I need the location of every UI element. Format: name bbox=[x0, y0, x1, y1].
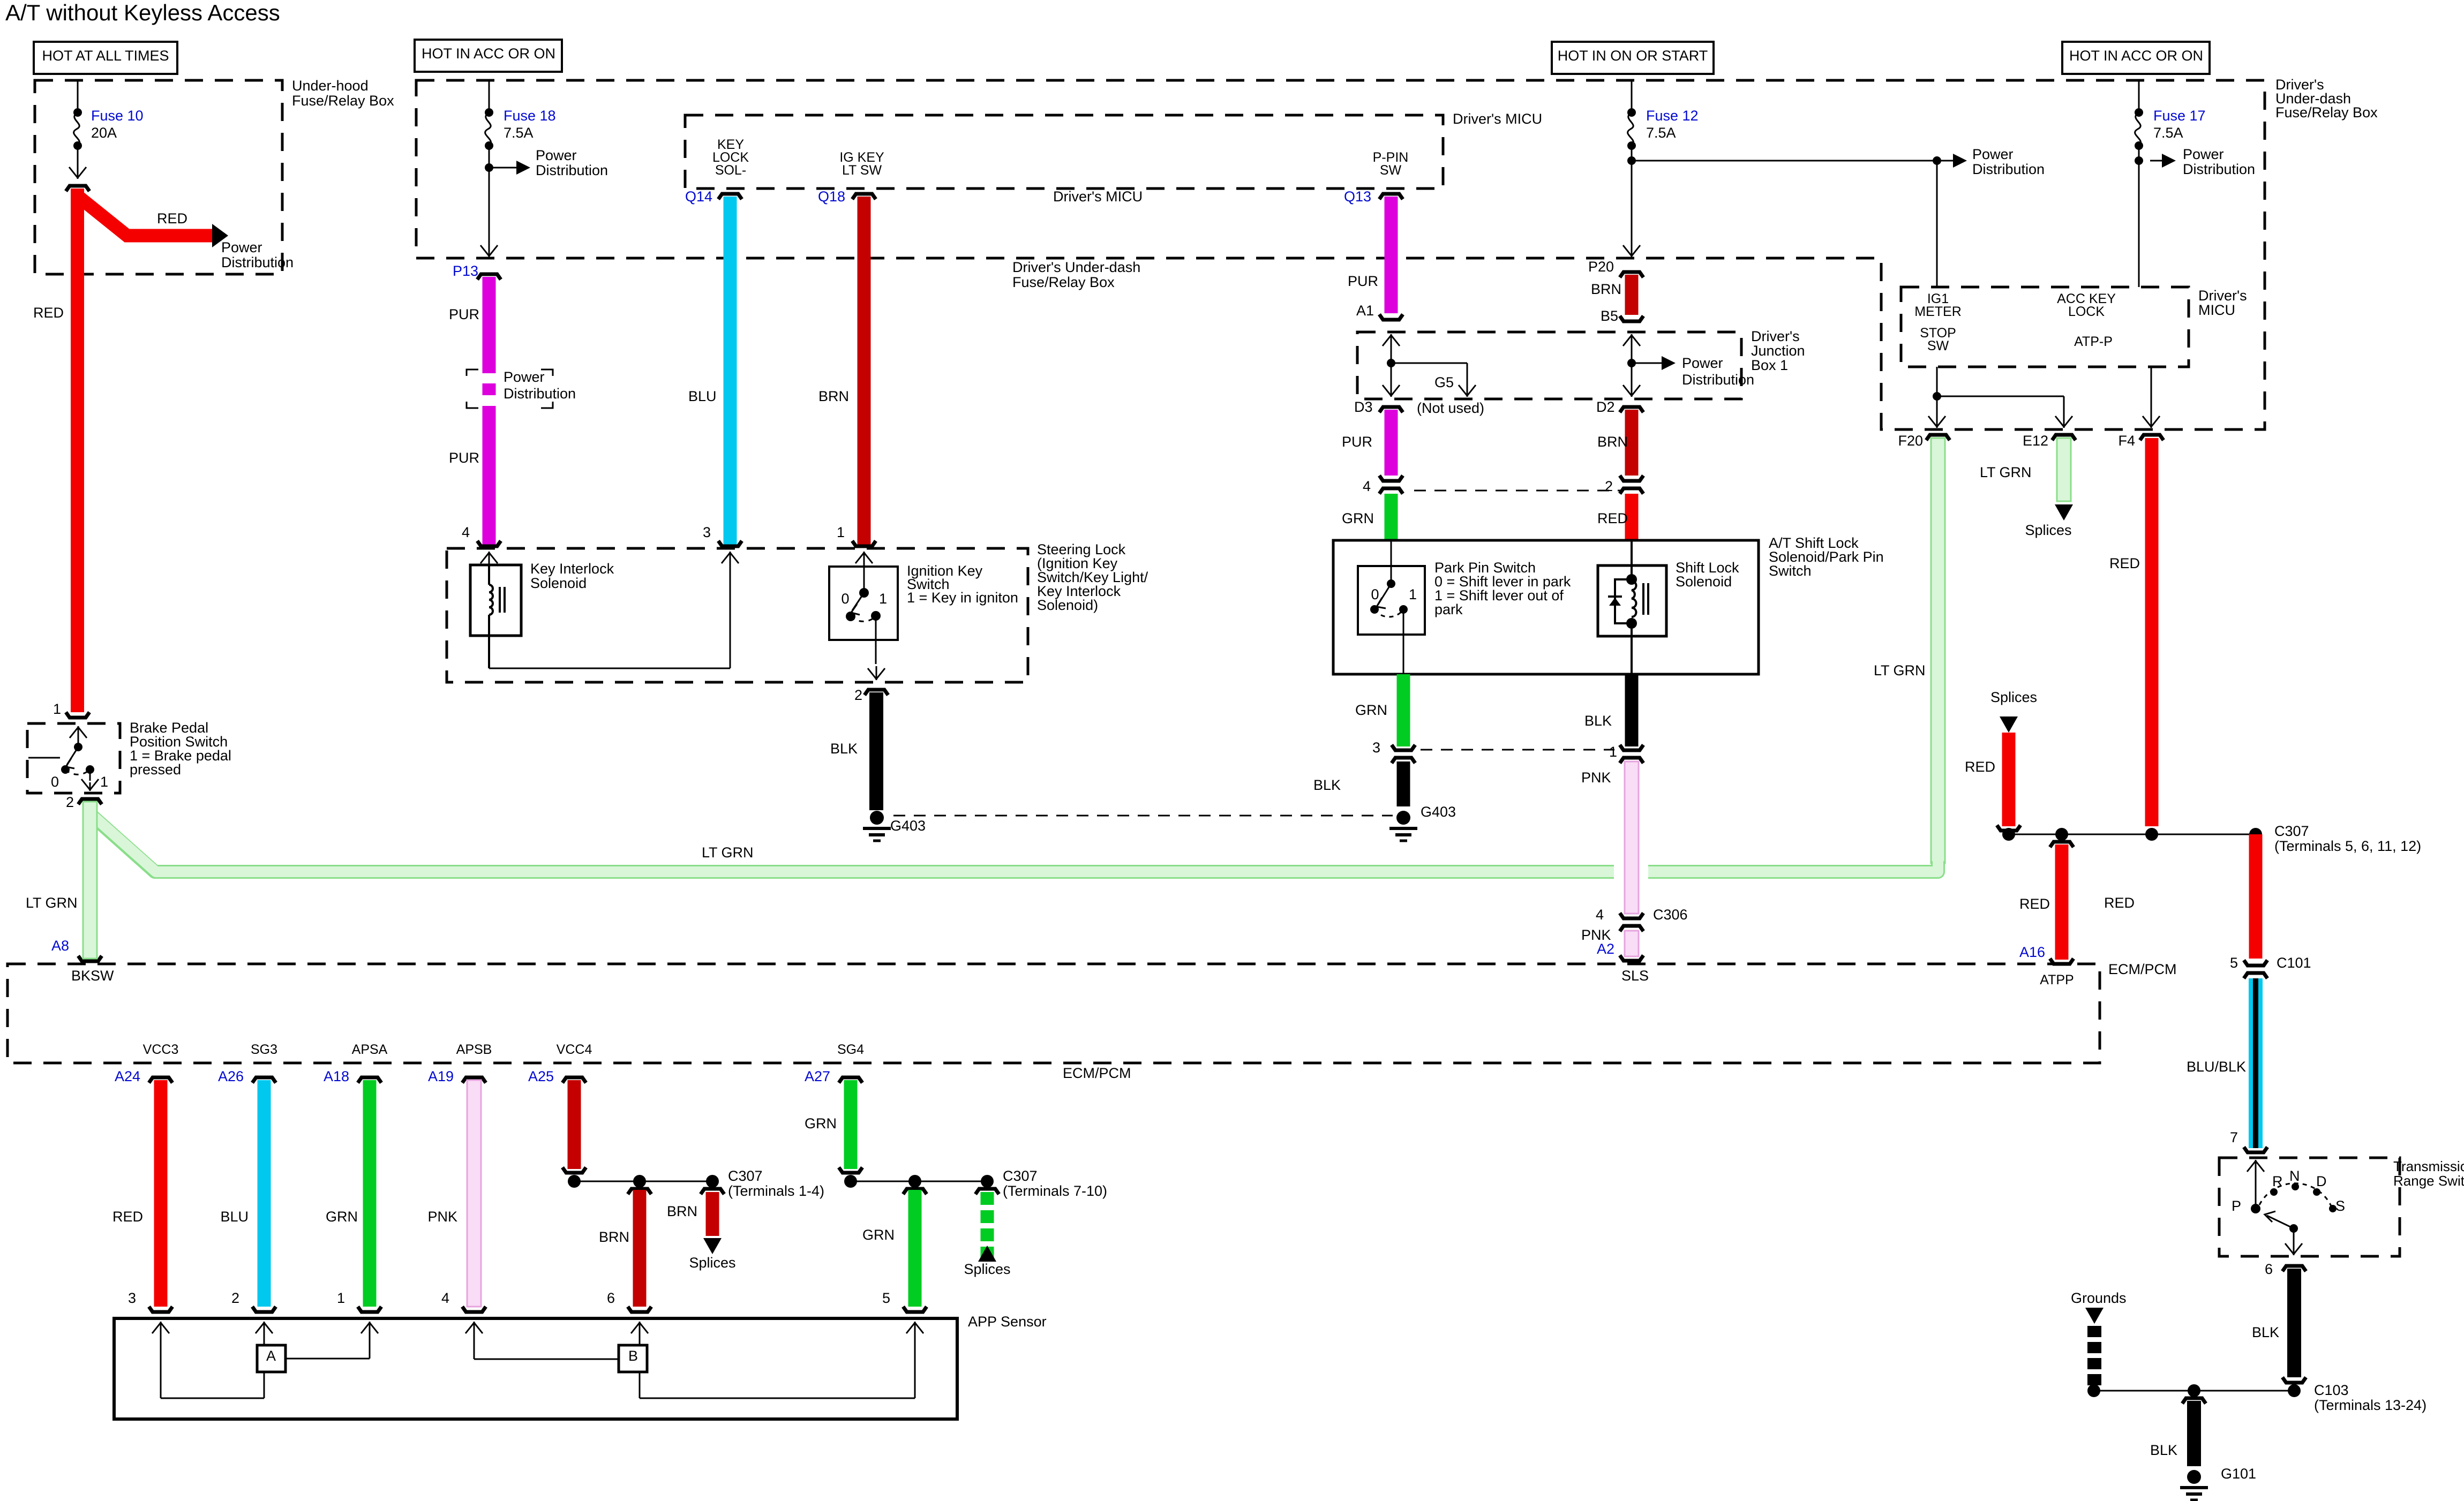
svg-text:6: 6 bbox=[607, 1290, 615, 1306]
svg-text:A1: A1 bbox=[1356, 303, 1374, 319]
svg-text:2: 2 bbox=[231, 1290, 239, 1306]
svg-text:C307: C307 bbox=[728, 1168, 763, 1184]
svg-text:0: 0 bbox=[1371, 586, 1379, 602]
svg-text:F20: F20 bbox=[1898, 433, 1923, 449]
svg-text:4: 4 bbox=[441, 1290, 449, 1306]
svg-text:7.5A: 7.5A bbox=[2153, 125, 2183, 141]
svg-text:A25: A25 bbox=[528, 1068, 554, 1084]
svg-text:Distribution: Distribution bbox=[221, 254, 294, 270]
svg-text:APP Sensor: APP Sensor bbox=[968, 1314, 1047, 1330]
svg-text:Splices: Splices bbox=[2025, 522, 2071, 538]
svg-text:B5: B5 bbox=[1601, 308, 1618, 324]
svg-text:P: P bbox=[2232, 1198, 2241, 1214]
svg-text:BLK: BLK bbox=[1313, 777, 1341, 793]
svg-text:ECM/PCM: ECM/PCM bbox=[2108, 961, 2177, 977]
svg-text:GRN: GRN bbox=[1355, 702, 1387, 718]
svg-text:PUR: PUR bbox=[449, 306, 479, 322]
svg-text:(Terminals 1-4): (Terminals 1-4) bbox=[728, 1183, 824, 1199]
svg-text:Solenoid): Solenoid) bbox=[1037, 597, 1098, 613]
svg-text:ECM/PCM: ECM/PCM bbox=[1063, 1065, 1131, 1081]
svg-text:BLU: BLU bbox=[688, 388, 717, 404]
svg-text:5: 5 bbox=[882, 1290, 890, 1306]
svg-text:G101: G101 bbox=[2221, 1466, 2256, 1482]
svg-text:C307: C307 bbox=[1003, 1168, 1038, 1184]
svg-text:PNK: PNK bbox=[427, 1209, 457, 1225]
svg-text:1: 1 bbox=[837, 524, 845, 540]
svg-text:(Not used): (Not used) bbox=[1417, 400, 1484, 416]
svg-text:Switch: Switch bbox=[1769, 563, 1812, 579]
svg-text:LT SW: LT SW bbox=[842, 163, 882, 178]
svg-text:A: A bbox=[266, 1348, 276, 1364]
svg-text:Q14: Q14 bbox=[685, 188, 712, 205]
svg-text:1: 1 bbox=[879, 591, 887, 607]
svg-text:Distribution: Distribution bbox=[1682, 372, 1754, 388]
svg-text:4: 4 bbox=[462, 524, 470, 540]
svg-text:PUR: PUR bbox=[449, 450, 479, 466]
svg-text:Q13: Q13 bbox=[1344, 188, 1371, 205]
svg-text:A8: A8 bbox=[51, 938, 69, 954]
svg-text:Driver's: Driver's bbox=[1751, 328, 1800, 344]
svg-text:G5: G5 bbox=[1434, 374, 1454, 390]
svg-text:BLK: BLK bbox=[1584, 713, 1612, 729]
svg-text:ATP-P: ATP-P bbox=[2074, 334, 2113, 349]
svg-text:S: S bbox=[2335, 1198, 2345, 1214]
svg-text:A16: A16 bbox=[2019, 944, 2045, 960]
svg-text:C307: C307 bbox=[2274, 823, 2309, 839]
svg-text:Q18: Q18 bbox=[818, 188, 845, 205]
svg-text:park: park bbox=[1434, 601, 1463, 617]
svg-text:SW: SW bbox=[1380, 163, 1402, 178]
svg-text:20A: 20A bbox=[91, 125, 117, 141]
svg-text:LT GRN: LT GRN bbox=[1874, 662, 1926, 678]
svg-text:Transmission: Transmission bbox=[2393, 1158, 2464, 1174]
svg-text:F4: F4 bbox=[2118, 433, 2135, 449]
svg-text:GRN: GRN bbox=[862, 1227, 895, 1243]
svg-text:Range Switch: Range Switch bbox=[2393, 1173, 2464, 1189]
svg-text:A24: A24 bbox=[115, 1068, 140, 1084]
svg-text:SLS: SLS bbox=[1621, 968, 1649, 984]
svg-text:Power: Power bbox=[1972, 146, 2014, 162]
svg-text:BKSW: BKSW bbox=[71, 968, 114, 984]
svg-text:BLU/BLK: BLU/BLK bbox=[2187, 1059, 2246, 1075]
svg-text:Splices: Splices bbox=[1990, 689, 2037, 705]
svg-text:Grounds: Grounds bbox=[2071, 1290, 2127, 1306]
svg-text:1: 1 bbox=[53, 701, 61, 717]
svg-text:7.5A: 7.5A bbox=[504, 125, 534, 141]
svg-text:6: 6 bbox=[2265, 1261, 2273, 1277]
svg-text:N: N bbox=[2289, 1168, 2300, 1184]
svg-text:LOCK: LOCK bbox=[2068, 304, 2105, 319]
svg-text:0: 0 bbox=[51, 774, 59, 790]
svg-text:BRN: BRN bbox=[599, 1229, 629, 1245]
svg-text:SG4: SG4 bbox=[837, 1042, 864, 1057]
svg-text:PUR: PUR bbox=[1342, 434, 1372, 450]
svg-text:Fuse/Relay Box: Fuse/Relay Box bbox=[1012, 274, 1115, 290]
svg-text:PNK: PNK bbox=[1581, 770, 1611, 786]
svg-text:Under-hood: Under-hood bbox=[292, 78, 369, 94]
svg-text:3: 3 bbox=[128, 1290, 136, 1306]
svg-text:2: 2 bbox=[854, 687, 862, 703]
svg-text:BRN: BRN bbox=[1591, 281, 1621, 297]
svg-text:Solenoid: Solenoid bbox=[530, 575, 587, 591]
svg-text:Fuse/Relay Box: Fuse/Relay Box bbox=[292, 93, 394, 109]
svg-text:A18: A18 bbox=[324, 1068, 349, 1084]
svg-text:C306: C306 bbox=[1653, 907, 1688, 923]
svg-text:3: 3 bbox=[703, 524, 711, 540]
svg-text:2: 2 bbox=[1605, 478, 1613, 494]
svg-text:RED: RED bbox=[1965, 759, 1995, 775]
svg-text:LT GRN: LT GRN bbox=[26, 895, 78, 911]
svg-text:4: 4 bbox=[1363, 478, 1371, 494]
svg-text:D2: D2 bbox=[1596, 399, 1615, 415]
svg-text:Splices: Splices bbox=[689, 1255, 735, 1271]
svg-text:G403: G403 bbox=[890, 818, 926, 834]
svg-text:HOT AT ALL TIMES: HOT AT ALL TIMES bbox=[42, 48, 169, 64]
svg-text:BRN: BRN bbox=[818, 388, 849, 404]
svg-text:0: 0 bbox=[841, 591, 849, 607]
svg-text:Distribution: Distribution bbox=[504, 386, 576, 402]
svg-text:Fuse 10: Fuse 10 bbox=[91, 108, 144, 124]
svg-text:D: D bbox=[2316, 1173, 2327, 1189]
svg-text:7: 7 bbox=[2230, 1129, 2238, 1145]
svg-text:D3: D3 bbox=[1354, 399, 1373, 415]
svg-text:RED: RED bbox=[112, 1209, 143, 1225]
svg-text:MICU: MICU bbox=[2198, 302, 2235, 318]
svg-text:SW: SW bbox=[1927, 338, 1949, 353]
svg-text:HOT IN ON OR START: HOT IN ON OR START bbox=[1558, 48, 1708, 64]
svg-text:Distribution: Distribution bbox=[536, 162, 608, 178]
svg-text:Splices: Splices bbox=[964, 1261, 1010, 1277]
svg-text:RED: RED bbox=[157, 210, 187, 227]
svg-text:GRN: GRN bbox=[326, 1209, 358, 1225]
svg-text:B: B bbox=[628, 1348, 638, 1364]
svg-text:A2: A2 bbox=[1597, 941, 1614, 957]
svg-text:BLK: BLK bbox=[2150, 1442, 2177, 1458]
svg-text:A/T without Keyless Access: A/T without Keyless Access bbox=[5, 0, 280, 25]
svg-text:Power: Power bbox=[536, 147, 577, 163]
svg-text:Power: Power bbox=[2183, 146, 2224, 162]
svg-text:Driver's: Driver's bbox=[2198, 288, 2247, 304]
svg-text:A19: A19 bbox=[428, 1068, 454, 1084]
svg-text:LT GRN: LT GRN bbox=[1980, 464, 2032, 480]
svg-text:Fuse/Relay Box: Fuse/Relay Box bbox=[2275, 104, 2378, 120]
svg-text:Driver's Under-dash: Driver's Under-dash bbox=[1012, 259, 1140, 275]
svg-text:Driver's MICU: Driver's MICU bbox=[1053, 188, 1143, 205]
svg-text:GRN: GRN bbox=[1342, 510, 1374, 526]
svg-text:APSB: APSB bbox=[456, 1042, 492, 1057]
svg-text:GRN: GRN bbox=[805, 1115, 837, 1132]
svg-text:1: 1 bbox=[1409, 586, 1417, 602]
svg-text:RED: RED bbox=[2109, 555, 2140, 571]
svg-text:RED: RED bbox=[33, 305, 64, 321]
svg-text:SOL-: SOL- bbox=[715, 163, 746, 178]
svg-text:Distribution: Distribution bbox=[1972, 161, 2045, 177]
svg-text:1: 1 bbox=[100, 774, 108, 790]
svg-text:1: 1 bbox=[1609, 744, 1617, 760]
svg-text:5: 5 bbox=[2230, 955, 2238, 971]
svg-text:P20: P20 bbox=[1588, 259, 1614, 275]
svg-text:BLK: BLK bbox=[2252, 1324, 2279, 1340]
svg-text:BRN: BRN bbox=[667, 1203, 697, 1219]
svg-text:HOT IN ACC OR ON: HOT IN ACC OR ON bbox=[422, 46, 555, 62]
svg-text:G403: G403 bbox=[1421, 804, 1456, 820]
svg-text:HOT IN ACC OR ON: HOT IN ACC OR ON bbox=[2069, 48, 2203, 64]
svg-text:P13: P13 bbox=[453, 263, 478, 279]
svg-text:RED: RED bbox=[2104, 895, 2135, 911]
svg-text:Junction: Junction bbox=[1751, 343, 1805, 359]
svg-text:Power: Power bbox=[221, 239, 262, 255]
svg-text:Power: Power bbox=[1682, 355, 1723, 371]
svg-text:METER: METER bbox=[1914, 304, 1962, 319]
svg-text:pressed: pressed bbox=[130, 761, 181, 778]
svg-text:C101: C101 bbox=[2277, 955, 2311, 971]
svg-text:(Terminals 13-24): (Terminals 13-24) bbox=[2314, 1397, 2427, 1413]
svg-text:Fuse 18: Fuse 18 bbox=[504, 108, 556, 124]
svg-text:3: 3 bbox=[1372, 740, 1380, 756]
svg-text:7.5A: 7.5A bbox=[1646, 125, 1676, 141]
svg-text:A26: A26 bbox=[218, 1068, 244, 1084]
svg-text:A27: A27 bbox=[805, 1068, 830, 1084]
svg-text:Driver's MICU: Driver's MICU bbox=[1453, 111, 1542, 127]
svg-text:SG3: SG3 bbox=[251, 1042, 277, 1057]
svg-text:1 = Key in igniton: 1 = Key in igniton bbox=[907, 590, 1018, 606]
svg-text:APSA: APSA bbox=[352, 1042, 388, 1057]
svg-text:Distribution: Distribution bbox=[2183, 161, 2255, 177]
svg-text:C103: C103 bbox=[2314, 1382, 2349, 1398]
svg-text:BLU: BLU bbox=[220, 1209, 249, 1225]
svg-text:(Terminals 7-10): (Terminals 7-10) bbox=[1003, 1183, 1107, 1199]
svg-text:Power: Power bbox=[504, 369, 545, 385]
svg-text:Fuse 12: Fuse 12 bbox=[1646, 108, 1699, 124]
svg-text:VCC3: VCC3 bbox=[143, 1042, 179, 1057]
svg-text:Key Interlock: Key Interlock bbox=[530, 561, 614, 577]
svg-text:RED: RED bbox=[2019, 896, 2050, 912]
svg-text:BLK: BLK bbox=[830, 741, 858, 757]
svg-text:1: 1 bbox=[337, 1290, 345, 1306]
svg-text:BRN: BRN bbox=[1597, 434, 1628, 450]
svg-text:LT GRN: LT GRN bbox=[702, 844, 754, 861]
svg-text:Solenoid: Solenoid bbox=[1676, 574, 1732, 590]
svg-text:PUR: PUR bbox=[1348, 273, 1378, 289]
svg-text:RED: RED bbox=[1597, 510, 1628, 526]
svg-text:(Terminals 5, 6, 11, 12): (Terminals 5, 6, 11, 12) bbox=[2274, 838, 2421, 854]
svg-text:4: 4 bbox=[1596, 907, 1604, 923]
svg-text:2: 2 bbox=[66, 794, 74, 810]
svg-text:Fuse 17: Fuse 17 bbox=[2153, 108, 2206, 124]
svg-text:VCC4: VCC4 bbox=[557, 1042, 592, 1057]
svg-text:Box 1: Box 1 bbox=[1751, 357, 1788, 373]
svg-text:E12: E12 bbox=[2023, 433, 2048, 449]
svg-text:ATPP: ATPP bbox=[2040, 972, 2074, 987]
